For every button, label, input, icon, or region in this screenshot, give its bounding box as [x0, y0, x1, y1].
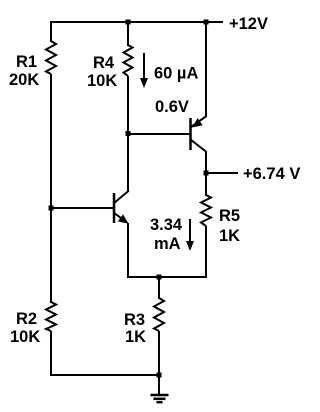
wire: Q1 emitter down: [127, 223, 129, 278]
svg-text:60 µA: 60 µA: [154, 65, 198, 83]
svg-text:+12V: +12V: [229, 15, 268, 33]
current arrow 3.34 mA: [186, 219, 194, 251]
wire: Q2 base wire: [128, 133, 190, 135]
svg-text:+6.74 V: +6.74 V: [243, 165, 300, 183]
svg-text:R3: R3: [124, 311, 145, 329]
svg-text:10K: 10K: [10, 328, 40, 346]
wire: middle branch top (rail to R4): [127, 21, 129, 46]
resistor R5: [201, 195, 211, 226]
wire: R3 branch bottom: [158, 331, 160, 376]
wire: R5 bottom: [205, 226, 207, 278]
wire: left branch bottom (R2 to ground rail): [50, 331, 52, 376]
wire: right branch top (rail to Q2 emitter): [205, 21, 207, 117]
svg-text:1K: 1K: [125, 328, 146, 346]
svg-text:R4: R4: [93, 54, 115, 72]
node: R1/R2 divider to Q1 base: [49, 206, 54, 211]
current arrow 60 uA: [140, 53, 148, 88]
resistor R4: [124, 45, 133, 76]
svg-text:R2: R2: [16, 310, 37, 328]
svg-text:R1: R1: [16, 53, 37, 71]
node: ground rail junction: [157, 373, 162, 378]
resistor R2: [46, 302, 56, 331]
node: output +6.74V junction: [204, 171, 209, 176]
wire: output node stub: [206, 172, 238, 174]
svg-text:0.6V: 0.6V: [155, 98, 189, 116]
wire: left branch middle (R1 to R2): [50, 74, 52, 303]
svg-text:3.34: 3.34: [150, 216, 183, 234]
transistor Q2 (PNP): [191, 116, 207, 152]
node: top rail / R4 branch junction: [126, 20, 131, 25]
wire: left branch top (rail to R1): [50, 21, 52, 42]
ground: [151, 375, 169, 402]
resistor R1: [46, 41, 56, 74]
wire: R3 branch top: [158, 277, 160, 299]
svg-text:10K: 10K: [87, 72, 117, 90]
node: top rail / right branch junction: [204, 20, 209, 25]
resistor R3: [154, 298, 164, 331]
svg-text:mA: mA: [154, 235, 181, 253]
transistor Q1 (NPN): [114, 191, 130, 224]
wire: bottom ground rail: [50, 374, 159, 376]
svg-text:20K: 20K: [9, 71, 39, 89]
wire: Q2 collector down to output node: [205, 151, 207, 196]
node: R3 top junction: [157, 275, 162, 280]
wire: middle branch (R4 to Q1 collector): [127, 76, 129, 191]
wire: Q1 base wire: [51, 207, 113, 209]
node: middle branch / Q2 base junction: [126, 131, 131, 136]
svg-text:R5: R5: [219, 207, 240, 225]
svg-text:1K: 1K: [219, 227, 240, 245]
wire: top +12V rail: [50, 21, 223, 23]
wire: emitter/R5 bottom horizontal: [127, 276, 207, 278]
